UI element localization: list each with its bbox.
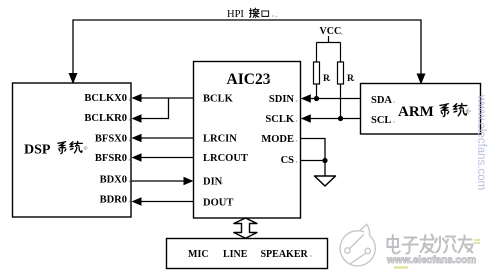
svg-text:VCC: VCC xyxy=(320,26,342,37)
glyph 统 (DSP) xyxy=(70,141,82,152)
wire LRCIN to BFSX0 xyxy=(138,137,194,139)
wire R1 to SDA net xyxy=(316,84,318,99)
wire SCLK to ARM SCL xyxy=(307,118,361,120)
paragraph mark after HPI 接口 xyxy=(272,15,274,17)
wire VCC to R1 xyxy=(316,43,318,63)
svg-text:ARM: ARM xyxy=(398,104,434,120)
arrowhead into AIC23 DIN xyxy=(184,177,194,185)
resistor R1 body xyxy=(314,62,320,84)
svg-text:BFSX0: BFSX0 xyxy=(95,134,127,145)
svg-text:LRCIN: LRCIN xyxy=(203,134,237,145)
arrowhead into ARM top xyxy=(417,74,426,85)
paragraph mark after DSP 系统 xyxy=(84,146,88,150)
glyph 口 xyxy=(262,11,269,16)
glyph 系 (ARM) xyxy=(440,104,449,117)
watermark TM mark xyxy=(474,240,480,243)
svg-text:BCLK: BCLK xyxy=(203,94,234,105)
connector double arrow AIC23 to audio box xyxy=(234,218,257,238)
wire VCC to R2 xyxy=(340,43,342,63)
svg-text:BDX0: BDX0 xyxy=(100,175,127,186)
svg-text:SPEAKER: SPEAKER xyxy=(261,249,309,260)
block ARM U3 (ARM 系统) xyxy=(361,84,481,135)
svg-text:BFSR0: BFSR0 xyxy=(95,153,127,164)
svg-text:SDA: SDA xyxy=(371,95,392,106)
pin mark after BCLKX0 xyxy=(129,33,395,256)
wire VCC stub xyxy=(328,36,330,43)
watermark small yellow text xyxy=(394,266,408,269)
svg-text:DIN: DIN xyxy=(203,177,223,188)
svg-text:MODE: MODE xyxy=(261,134,294,145)
svg-text:SDIN: SDIN xyxy=(269,94,295,105)
resistor R2 body xyxy=(338,62,344,84)
block AIC23 U2 xyxy=(194,62,301,219)
junction node MODE/CS xyxy=(322,158,327,163)
block MIC/LINE/SPEAKER xyxy=(167,239,328,269)
svg-text:HPI: HPI xyxy=(227,9,244,20)
glyph 友 xyxy=(459,236,473,253)
svg-text:SCL: SCL xyxy=(371,115,391,126)
svg-text:www.elecfans.com: www.elecfans.com xyxy=(475,94,487,190)
block DSP U1 (DSP 系统) xyxy=(13,83,132,217)
arrowhead into DSP BCLKR0 xyxy=(132,114,142,122)
arrowhead into AIC23 SCLK xyxy=(301,114,311,122)
svg-text:DSP: DSP xyxy=(24,143,51,158)
wire VCC rail xyxy=(317,42,341,44)
wire BDX0 to DIN xyxy=(132,180,188,182)
glyph 电 xyxy=(388,235,400,254)
glyph 发 xyxy=(421,235,434,253)
glyph 统 (ARM) xyxy=(454,103,467,115)
arrowhead into DSP BFSX0 xyxy=(132,134,142,142)
svg-text:BCLKR0: BCLKR0 xyxy=(84,113,127,124)
wire LRCOUT to BFSR0 xyxy=(138,157,194,159)
svg-text:R: R xyxy=(347,74,354,84)
svg-text:LRCOUT: LRCOUT xyxy=(203,153,248,164)
junction node R1/SDA xyxy=(314,96,319,101)
svg-text:www.elecfans.com: www.elecfans.com xyxy=(386,255,476,266)
wire R2 to SCL net xyxy=(340,84,342,119)
paragraph mark after ARM 系统 xyxy=(466,109,471,114)
svg-text:AIC23: AIC23 xyxy=(227,71,271,88)
svg-text:R: R xyxy=(323,74,330,84)
junction node R2/SCL xyxy=(338,116,343,121)
ground symbol xyxy=(315,176,336,186)
wire branch BCLK to BCLKR0 xyxy=(138,98,169,119)
wire node to ground xyxy=(324,161,326,177)
glyph 子 xyxy=(403,238,419,254)
arrowhead into DSP BDR0 xyxy=(132,197,142,205)
svg-text:CS: CS xyxy=(281,155,295,166)
glyph 烧 xyxy=(435,237,456,253)
wire CS to node xyxy=(301,160,325,162)
wire BCLK to BCLKX0 xyxy=(138,97,194,99)
svg-text:MIC: MIC xyxy=(188,249,209,260)
wire SDIN to ARM SDA xyxy=(307,98,361,100)
glyph 系 (DSP) xyxy=(58,142,66,154)
watermark logo circle xyxy=(340,224,375,266)
svg-text:LINE: LINE xyxy=(223,249,248,260)
wire HPI net: DSP top to ARM top xyxy=(73,20,421,83)
glyph 接 xyxy=(249,8,259,17)
arrowhead into DSP BFSR0 xyxy=(132,153,142,161)
watermark 电子发烧友 xyxy=(388,235,473,254)
wire DOUT to BDR0 xyxy=(138,201,194,203)
arrowhead into AIC23 SDIN xyxy=(301,94,311,102)
arrowhead into DSP BCLKX0 xyxy=(132,94,142,102)
arrowhead into DSP top xyxy=(69,73,78,84)
svg-text:DOUT: DOUT xyxy=(203,198,233,209)
wire MODE to CS node xyxy=(301,139,325,161)
paragraph mark after AIC23 xyxy=(267,77,271,81)
svg-text:BDR0: BDR0 xyxy=(100,195,127,206)
svg-text:SCLK: SCLK xyxy=(265,114,294,125)
svg-text:BCLKX0: BCLKX0 xyxy=(84,93,127,104)
